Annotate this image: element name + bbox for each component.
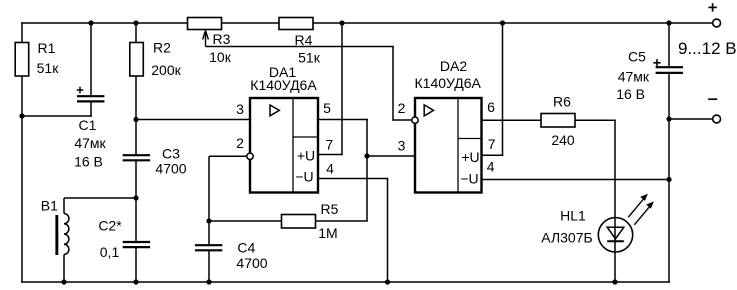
svg-text:2: 2 <box>236 135 244 151</box>
LED HL1 diode triangle <box>607 227 624 239</box>
wire C5 top lead <box>668 23 670 66</box>
op-amp DA1 divider horizontal <box>293 136 318 138</box>
microphone B1 core bar <box>55 215 58 255</box>
junction dot R2 top rail <box>133 20 138 25</box>
wire C3 to C2 (node B1) <box>135 161 137 241</box>
wire C1 to left column <box>22 115 92 117</box>
svg-text:3: 3 <box>398 137 406 153</box>
wire C2 bottom lead <box>135 248 137 282</box>
svg-text:16 В: 16 В <box>616 86 645 102</box>
resistor R5 <box>282 215 316 229</box>
svg-text:R6: R6 <box>553 94 571 110</box>
svg-text:0,1: 0,1 <box>100 244 120 260</box>
svg-text:9...12 В: 9...12 В <box>678 39 737 58</box>
junction dot C2 bottom rail <box>133 279 138 284</box>
wire left column R1 bottom to bottom rail <box>21 76 23 283</box>
resistor R2 <box>130 43 144 77</box>
svg-text:51к: 51к <box>37 60 60 76</box>
wire DA1 pin 3 input <box>136 119 250 121</box>
op-amp DA2 body <box>415 98 482 193</box>
label − sign <box>708 98 717 100</box>
junction dot pin3/R2/C3 node <box>133 117 138 122</box>
svg-text:47мк: 47мк <box>74 135 106 151</box>
svg-text:К140УД6А: К140УД6А <box>415 75 482 91</box>
junction dot DA2 pin7 top rail <box>500 20 505 25</box>
wire top rail left (R1 top to R3) <box>21 22 187 24</box>
svg-text:4: 4 <box>487 158 495 174</box>
wire C4 bottom lead <box>208 251 210 282</box>
op-amp DA2 divider vertical <box>457 98 459 193</box>
wire R5 left <box>209 220 282 222</box>
wire DA1 pin 4 down to bottom rail <box>387 179 389 283</box>
junction dot C1 left column <box>19 113 24 118</box>
junction dot R5/C4/pin2 node <box>206 218 211 223</box>
svg-text:C2*: C2* <box>98 218 122 234</box>
wire R2 top lead <box>135 23 137 43</box>
junction dot C5 top rail <box>666 20 671 25</box>
svg-text:4: 4 <box>326 161 334 177</box>
wire DA2 pin 7 up to +U rail <box>502 22 504 155</box>
svg-text:1М: 1М <box>318 225 337 241</box>
svg-text:АЛ307Б: АЛ307Б <box>541 229 592 245</box>
label + sign <box>708 6 716 8</box>
op-amp DA1 triangle <box>270 105 279 116</box>
svg-text:−U: −U <box>295 169 313 185</box>
terminal + (plus) <box>713 19 721 27</box>
resistor R6 <box>541 114 575 128</box>
wire DA1 pin 4 horizontal <box>318 178 388 180</box>
svg-text:16 В: 16 В <box>74 154 103 170</box>
junction dot pin7 DA1 top rail <box>339 20 344 25</box>
svg-text:6: 6 <box>487 99 495 115</box>
capacitor C3 <box>123 154 150 156</box>
wire R5 right <box>316 220 368 222</box>
wire C4 top lead <box>208 221 210 244</box>
svg-text:C3: C3 <box>162 146 180 162</box>
svg-text:HL1: HL1 <box>560 208 586 224</box>
wire R2 bottom to C3 <box>135 76 137 154</box>
svg-text:DA2: DA2 <box>440 58 467 74</box>
svg-text:4700: 4700 <box>236 255 267 271</box>
wire output to DA2 pin 3 <box>367 155 415 157</box>
op-amp DA2 triangle <box>424 105 433 116</box>
wire DA2 pin 6 to R6 <box>481 119 541 121</box>
op-amp DA1 divider vertical <box>292 98 294 193</box>
svg-text:240: 240 <box>551 132 575 148</box>
wire LED column <box>614 120 616 282</box>
junction dot DA2 pin4 minus column <box>666 177 671 182</box>
wire minus terminal <box>670 118 713 120</box>
LED HL1 arrow 2 <box>634 204 651 225</box>
svg-text:7: 7 <box>325 136 333 152</box>
svg-text:+U: +U <box>461 149 479 165</box>
svg-text:+U: +U <box>297 148 315 164</box>
junction dot C4 bottom rail <box>206 279 211 284</box>
svg-text:7: 7 <box>488 136 496 152</box>
resistor R4 <box>279 18 313 30</box>
resistor R1 <box>15 43 29 77</box>
svg-text:5: 5 <box>323 100 331 116</box>
svg-text:R5: R5 <box>321 201 339 217</box>
junction dot output node <box>364 153 369 158</box>
wire top rail +U (R4 to + terminal) <box>313 22 713 24</box>
wire DA1 pin 7 horizontal <box>318 154 343 156</box>
junction dot B1 bottom rail <box>61 279 66 284</box>
wire B1 top horizontal <box>64 197 137 199</box>
svg-text:51к: 51к <box>298 49 321 65</box>
svg-text:C5: C5 <box>628 48 646 64</box>
wire R3 wiper horizontal <box>206 46 394 48</box>
capacitor C5 (electrolytic) <box>656 66 683 68</box>
wire top rail R3-R4 <box>222 22 280 24</box>
svg-text:10к: 10к <box>209 49 232 65</box>
svg-text:4700: 4700 <box>155 161 186 177</box>
svg-text:К140УД6А: К140УД6А <box>250 77 317 93</box>
svg-text:−U: −U <box>460 171 478 187</box>
capacitor C2 <box>123 241 150 243</box>
capacitor C1 (electrolytic) <box>77 95 104 97</box>
junction dot C1 top rail <box>88 20 93 25</box>
junction dot minus node <box>666 116 671 121</box>
junction dot LED bottom rail <box>612 279 617 284</box>
LED HL1 circle <box>598 218 632 252</box>
wire wiper down to DA2 pin 2 level <box>392 47 394 121</box>
svg-text:C1: C1 <box>79 117 97 133</box>
wire DA1 pin 5 output <box>318 119 368 121</box>
op-amp DA1 inverting input circle <box>247 153 253 159</box>
potentiometer R3 wiper <box>205 32 207 47</box>
wire C1 bottom lead <box>90 103 92 117</box>
op-amp DA2 divider horizontal <box>458 138 482 140</box>
wire left column R1 top lead <box>21 22 23 42</box>
svg-text:R3: R3 <box>213 31 231 47</box>
svg-text:R2: R2 <box>153 40 171 56</box>
wire DA1 pin 2 down to R5 node <box>208 156 210 222</box>
terminal − (minus) <box>713 115 721 123</box>
wire to DA2 pin 2 <box>393 119 412 121</box>
wire C5 bottom to minus node <box>668 74 670 120</box>
junction dot DA1 pin4 bottom rail <box>385 279 390 284</box>
svg-text:200к: 200к <box>151 62 181 78</box>
op-amp DA1 body <box>250 98 318 193</box>
LED HL1 cathode bar <box>607 240 624 242</box>
wire bottom rail <box>21 281 670 283</box>
LED HL1 arrow 1 <box>628 197 645 218</box>
wire DA2 pin 4 to minus column <box>481 179 669 181</box>
wire DA1 pin 7 up to +U rail <box>341 22 343 154</box>
potentiometer R3 <box>188 18 222 30</box>
junction dot B1/C3/C2 node <box>133 195 138 200</box>
svg-text:3: 3 <box>236 101 244 117</box>
wire C1 top lead <box>90 23 92 95</box>
wire output node vertical (pin5 to R5) <box>366 119 368 221</box>
svg-text:R4: R4 <box>295 32 313 48</box>
wire DA2 pin 7 horizontal <box>481 154 503 156</box>
svg-text:B1: B1 <box>41 198 58 214</box>
svg-text:47мк: 47мк <box>618 69 650 85</box>
microphone B1 coil <box>63 198 65 214</box>
op-amp DA2 inverting input circle <box>412 117 418 123</box>
svg-text:R1: R1 <box>38 40 56 56</box>
wire R6 to LED column <box>575 119 616 121</box>
wire minus column down to bottom rail <box>668 119 670 283</box>
svg-text:2: 2 <box>398 100 406 116</box>
wire DA1 pin 2 horizontal <box>209 155 247 157</box>
capacitor C4 <box>195 244 222 246</box>
svg-text:C4: C4 <box>237 239 255 255</box>
